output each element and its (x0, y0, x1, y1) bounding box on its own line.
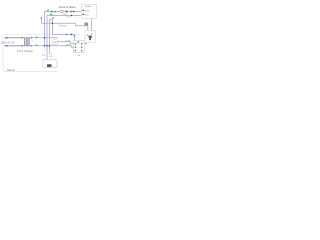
junction bottom rail b (46, 45, 47, 46)
wire T2 (47, 16, 81, 60)
U1 pin 2 (75, 46, 77, 48)
alarm bell glyph (88, 36, 92, 38)
probe pin top rail (36, 37, 37, 38)
pin mark transformer pin 4 (31, 45, 32, 46)
svg-text:Clock of Alarm: Clock of Alarm (59, 5, 77, 9)
transformer core bar 2 (26, 37, 28, 46)
pin mark T2 bend (50, 14, 51, 15)
U1 pin 4 (81, 43, 83, 45)
arrow input N (head) (4, 45, 7, 47)
wire AC top rail (5, 37, 58, 39)
wire AC bottom rail (5, 46, 74, 47)
component TP on T4 (84, 23, 88, 26)
svg-text:Ch A/B: Ch A/B (84, 5, 91, 8)
wire stub transformer pin 1 (22, 37, 24, 39)
wire branch to U1 top (53, 20, 75, 41)
wire stub transformer pin 4 (30, 45, 32, 47)
pin mark transformer pin 3 (31, 37, 32, 38)
svg-text:Saved: Saved (7, 68, 15, 72)
pin mark T3 bend (52, 17, 53, 18)
U1 pin 6 (81, 50, 83, 52)
svg-text:Pulse: Pulse (84, 10, 90, 12)
wire T3 (short step) (50, 19, 53, 21)
U1 top mark (78, 41, 80, 43)
pin mark transformer pin 1 (21, 37, 22, 38)
pin mark T1 bend (47, 10, 48, 11)
svg-text:220V AC 50: 220V AC 50 (1, 42, 15, 45)
pin mark branch a (66, 34, 67, 35)
U1 pin 3 (75, 50, 77, 52)
U1 pin 5 (81, 46, 83, 48)
svg-text:GB: GB (53, 42, 57, 44)
speaker box (43, 60, 57, 68)
component V1 on T1 (66, 11, 68, 13)
transformer core bar 1 (25, 37, 27, 46)
transformer T1 left coil (24, 38, 25, 46)
transformer right coil (29, 38, 30, 46)
junction top rail (44, 37, 45, 38)
wire T1 (top horizontal net) (45, 12, 82, 46)
pin mark T4 left (41, 17, 42, 18)
wire mid rail to U1 pin1 (57, 42, 73, 44)
component D1 on T1 (51, 11, 53, 13)
svg-text:0.6m: 0.6m (66, 44, 71, 46)
scope box (81, 4, 96, 18)
svg-text:0.5m: 0.5m (66, 40, 71, 42)
svg-text:Sensor: Sensor (59, 25, 67, 28)
junction branch rail (71, 34, 72, 35)
junction bottom rail c (49, 45, 50, 46)
junction T3 branch (52, 23, 53, 24)
sheet frame (faint sub-circuit boundary) (3, 34, 80, 71)
alarm box (85, 30, 95, 43)
alarm green accent right (91, 33, 92, 34)
probe pin bottom rail (36, 45, 37, 46)
wire stub transformer pin 3 (30, 37, 32, 39)
svg-text:K 0.1 (Trans): K 0.1 (Trans) (17, 49, 33, 53)
pin mark transformer pin 2 (21, 45, 22, 46)
U1 pin 1 (75, 43, 77, 45)
wire stub transformer pin 2 (22, 45, 24, 47)
capacitor block GB (52, 40, 57, 45)
speaker glyph (47, 64, 52, 67)
scope row 1 glyph (82, 10, 83, 11)
alarm bell stem (89, 38, 91, 40)
meter M1 on T1 (60, 10, 63, 13)
wire V3 (49, 20, 51, 53)
component D2 on T1 (70, 11, 72, 13)
IC U1 body (74, 41, 85, 53)
scope row 2 glyph (82, 14, 83, 15)
canvas background (0, 0, 100, 79)
arrow input N (line) (5, 45, 22, 47)
alarm green accent left (87, 35, 88, 36)
wire scope box to alarm box (91, 18, 93, 30)
arrow input L (head) (4, 37, 7, 39)
pin mark branch b (74, 35, 75, 36)
wire T4 (long net) (42, 18, 88, 30)
arrow input L (line) (5, 37, 22, 39)
junction on T2 (71, 15, 72, 16)
junction on T1 (73, 11, 74, 12)
wire U1 output to alarm box (84, 43, 86, 44)
junction bottom rail a (44, 45, 45, 46)
component F1 on T1 (55, 11, 57, 13)
